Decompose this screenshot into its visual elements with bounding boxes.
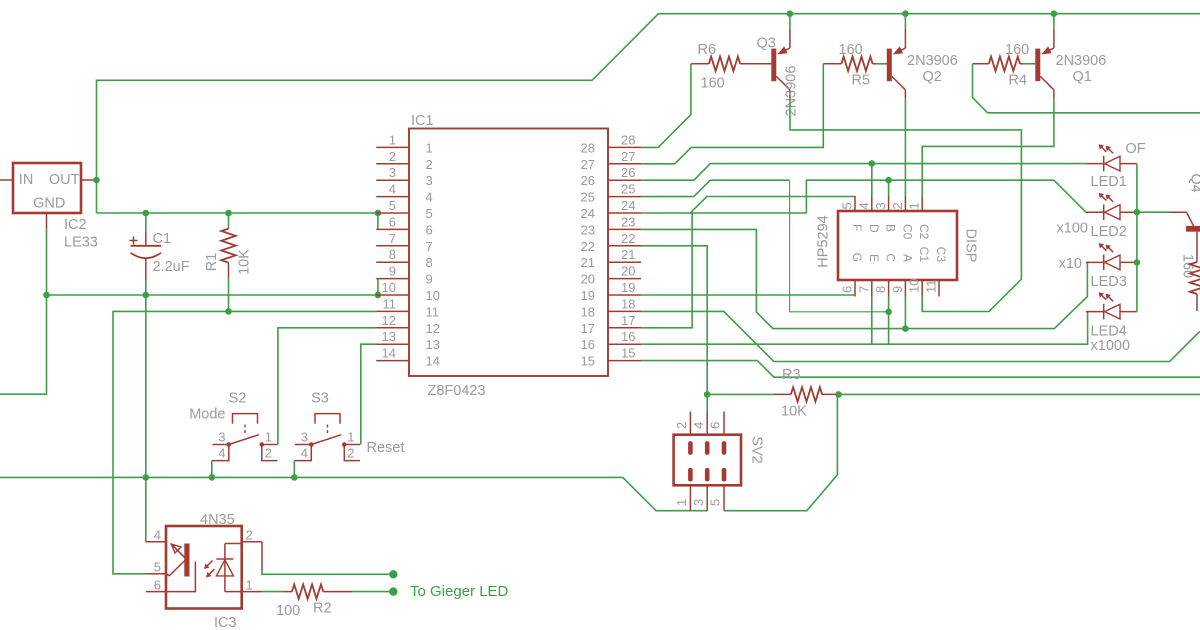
svg-text:22: 22 [581, 239, 595, 254]
HP5294 pin 4 stub [871, 197, 873, 212]
HP5294 pin 11 stub [938, 280, 940, 297]
svg-text:2.2uF: 2.2uF [153, 259, 190, 275]
svg-text:Z8F0423: Z8F0423 [428, 383, 486, 399]
svg-text:IN: IN [19, 172, 34, 188]
IC1 pin 27 [608, 163, 641, 165]
IC1 pin 2 [376, 163, 409, 165]
switch S2 lever [229, 435, 259, 445]
wire S2 pin1 to IC1 pin12 [278, 328, 376, 445]
svg-text:5: 5 [840, 202, 855, 209]
svg-text:10: 10 [382, 280, 396, 295]
SV2 pin 3 stub [706, 485, 708, 510]
svg-text:C1: C1 [917, 247, 931, 263]
svg-text:2: 2 [389, 149, 396, 164]
svg-text:4: 4 [154, 528, 161, 543]
HP5294 pin 5 stub [854, 197, 856, 212]
svg-text:27: 27 [621, 149, 635, 164]
svg-text:Mode: Mode [189, 407, 225, 423]
svg-text:C3: C3 [934, 247, 948, 263]
svg-text:6: 6 [840, 286, 855, 293]
wire diagonal into LED2 [1054, 180, 1086, 212]
IC3 LED vertical + plates [224, 544, 226, 592]
connector SV2 body [674, 435, 741, 486]
junction R1 top [225, 210, 232, 217]
IC1 pin 5 [376, 212, 409, 214]
transistor Q2 2N3906 base bar [887, 49, 892, 82]
svg-text:20: 20 [581, 272, 595, 287]
voltage regulator IC2 LE33 body [13, 163, 81, 213]
Q3 collector [776, 76, 790, 89]
wire S2 pin4 to GND rail [211, 461, 213, 478]
svg-text:5: 5 [389, 198, 396, 213]
svg-text:OF: OF [1126, 141, 1146, 157]
switch S2 bracket [233, 414, 258, 424]
svg-text:21: 21 [581, 255, 595, 270]
switch S3 pin 4 [294, 445, 311, 461]
svg-text:6: 6 [154, 578, 161, 593]
svg-text:3: 3 [218, 430, 225, 445]
junction Q3 emitter on rail [787, 10, 794, 17]
junction Q1 emitter on rail [1051, 10, 1058, 17]
svg-text:2N3906: 2N3906 [907, 53, 958, 69]
IC1 pin 7 [376, 245, 409, 247]
IC1 pin 26 [608, 179, 641, 181]
junction LED2 cathode [1134, 209, 1141, 216]
IC1 pin 16 [608, 343, 641, 345]
wire Q3 collector to HP10 [790, 98, 1021, 312]
junction output top [389, 570, 397, 578]
display DISP HP5294 body [838, 211, 957, 280]
switch S3 actuator dash [327, 425, 329, 435]
junction IC1 pin10 [375, 292, 382, 299]
svg-text:IC3: IC3 [214, 615, 237, 630]
IC3 pin 4 [146, 541, 166, 543]
svg-text:S3: S3 [311, 391, 329, 407]
wire GND from IC2 down and off left edge [0, 229, 47, 395]
svg-text:3: 3 [873, 202, 888, 209]
svg-text:F: F [850, 224, 864, 231]
svg-text:11: 11 [426, 304, 440, 319]
junction GND/C1 branch [143, 474, 150, 481]
svg-text:2N3906: 2N3906 [1056, 53, 1107, 69]
svg-text:A: A [900, 254, 914, 262]
junction OUT [93, 177, 100, 184]
junction Q2 emitter on rail [902, 10, 909, 17]
svg-text:24: 24 [621, 198, 635, 213]
wire pin28 to R6 [641, 64, 691, 148]
IC3 base L to pin6 [166, 562, 195, 592]
resistor R3 10K [707, 393, 774, 395]
svg-text:R2: R2 [313, 601, 332, 617]
HP5294 pin 7 stub [871, 280, 873, 297]
Q2 emitter wire to rail [904, 14, 906, 29]
SV2 pad top 1 [705, 441, 710, 454]
svg-text:8: 8 [426, 255, 433, 270]
HP5294 pin 1 stub [921, 197, 923, 212]
svg-text:8: 8 [389, 247, 396, 262]
svg-text:160: 160 [839, 42, 863, 58]
wire pin5-pin6 tie [377, 213, 379, 229]
SV2 pad top 0 [688, 441, 693, 454]
svg-text:1: 1 [246, 578, 253, 593]
svg-text:R4: R4 [1009, 73, 1028, 89]
switch S3 pin 2 [344, 445, 360, 461]
HP5294 pin 3 stub [888, 197, 890, 212]
IC1 pin 11 [376, 310, 409, 312]
svg-text:16: 16 [581, 337, 595, 352]
capacitor C1 2.2uF [145, 213, 147, 231]
svg-text:IC1: IC1 [411, 113, 434, 129]
svg-text:7: 7 [389, 231, 396, 246]
junction HP5294 pin4 tap [869, 160, 876, 167]
SV2 pin 4 stub [706, 411, 708, 435]
svg-text:x10: x10 [1059, 256, 1082, 272]
IC3 photon arrows [206, 561, 213, 568]
svg-text:25: 25 [621, 182, 635, 197]
SV2 pin 2 stub [689, 412, 691, 435]
svg-text:x100: x100 [1057, 221, 1088, 237]
IC1 pin 21 [608, 261, 641, 263]
wire IC3 pin2 to output dot [261, 542, 263, 571]
switch S2 pin 2 [262, 445, 278, 461]
svg-text:DISP: DISP [963, 229, 979, 263]
IC1 pin 17 [608, 327, 641, 329]
Q1 collector [1040, 76, 1054, 89]
transistor Q3 2N3906 base bar [771, 49, 776, 82]
svg-text:12: 12 [382, 313, 396, 328]
IC1 pin 9 [376, 278, 409, 280]
IC1 pin 10 [376, 294, 409, 296]
IC1 pin 12 [376, 327, 409, 329]
wire pin18 to right edge [641, 311, 1200, 361]
svg-text:G: G [850, 253, 864, 262]
IC1 pin 24 [608, 212, 641, 214]
svg-text:6: 6 [708, 422, 723, 429]
svg-text:12: 12 [426, 321, 440, 336]
SV2 pad bottom 2 [722, 468, 727, 481]
junction S2 pin4 [209, 474, 216, 481]
svg-text:20: 20 [621, 264, 635, 279]
svg-text:24: 24 [581, 206, 595, 221]
wire pin23 to HP9 and LED3 [641, 229, 1087, 328]
Q2 emitter [897, 48, 906, 52]
Q2 collector [892, 76, 906, 89]
wire GND horizontal to IC1 pin10 [47, 294, 378, 296]
wire pin27 to R5 [641, 64, 823, 164]
svg-text:13: 13 [426, 337, 440, 352]
wire GND drop to bottom rail and IC3 pin4 [145, 295, 147, 542]
wire S3 pin4 to GND rail [293, 461, 295, 478]
SV2 pin 6 stub [723, 412, 725, 435]
wire pin24 to HP5 [641, 197, 856, 214]
svg-text:Reset: Reset [367, 440, 405, 456]
wire pin11 net to IC3 pin5 [113, 311, 376, 573]
IC2 pin OUT [81, 179, 97, 181]
switch S3 pin 3 [295, 444, 311, 446]
wire pin9-pin10 tie [377, 279, 379, 295]
HP5294 pin 9 wire down [904, 297, 906, 329]
svg-text:100: 100 [276, 603, 300, 619]
svg-text:C0: C0 [900, 224, 914, 240]
svg-text:5: 5 [426, 206, 433, 221]
SV2 pin 1 stub [689, 485, 691, 510]
junction S3 pin4 [291, 474, 298, 481]
Q1 emitter wire to rail [1053, 14, 1055, 29]
IC3 pin 5 [146, 573, 166, 575]
svg-text:C1: C1 [153, 231, 172, 247]
HP5294 pin 2 stub [904, 197, 906, 212]
wire R4 corner to right edge [973, 64, 1200, 113]
svg-text:14: 14 [426, 354, 440, 369]
svg-text:1: 1 [389, 132, 396, 147]
LED4 emission arrows [1101, 295, 1106, 300]
svg-text:22: 22 [621, 231, 635, 246]
HP5294 pin 9 stub [904, 280, 906, 297]
resistor R2 100 [284, 591, 292, 593]
svg-text:1: 1 [265, 430, 272, 445]
svg-text:C2: C2 [917, 224, 931, 240]
svg-text:10K: 10K [781, 404, 807, 420]
wire 3.3V: OUT up, across top, to rail [97, 14, 1200, 213]
svg-text:R3: R3 [782, 367, 801, 383]
svg-text:2: 2 [426, 157, 433, 172]
IC3 pin 2 [242, 541, 262, 543]
svg-text:Q1: Q1 [1073, 69, 1092, 85]
svg-text:SV2: SV2 [749, 436, 765, 463]
IC1 pin 14 [376, 360, 409, 362]
resistor R5 160 [823, 63, 841, 65]
svg-text:1: 1 [347, 430, 354, 445]
IC2 pin GND [46, 213, 48, 229]
wire pin19 to HP6 [641, 294, 855, 296]
svg-text:LED1: LED1 [1091, 174, 1127, 190]
LED LED1 (pointing left) [1086, 163, 1104, 165]
junction HP5294 pin8 tap [885, 309, 892, 316]
Q3 emitter [781, 48, 790, 52]
wire IC3 pin1 to R2 [262, 591, 284, 593]
IC1 pin 1 [376, 146, 409, 148]
transistor Q4 2N3906 (rotated, clipped at edge) [1170, 211, 1187, 213]
switch S2 pin 1 [262, 444, 278, 446]
junction LED3 cathode [1134, 259, 1141, 266]
svg-text:1: 1 [426, 140, 433, 155]
wire LED2 junction to Q4 base [1137, 211, 1170, 213]
IC2 pin IN [0, 179, 13, 181]
switch S2 actuator dash [244, 425, 246, 435]
svg-text:3: 3 [301, 430, 308, 445]
IC1 pin 3 [376, 179, 409, 181]
svg-text:28: 28 [621, 132, 635, 147]
svg-text:15: 15 [621, 346, 635, 361]
svg-text:R1: R1 [204, 253, 220, 272]
svg-text:7: 7 [856, 286, 871, 293]
wire Q2 collector to HP2 [904, 98, 906, 197]
svg-text:21: 21 [621, 247, 635, 262]
LED LED3 (pointing left) [1086, 261, 1104, 263]
IC1 pin 18 [608, 310, 641, 312]
svg-text:17: 17 [621, 313, 635, 328]
svg-text:6: 6 [426, 222, 433, 237]
junction GND corner [43, 292, 50, 299]
HP5294 pin 8 wire down [888, 297, 890, 345]
Q1 emitter [1045, 48, 1054, 52]
svg-text:160: 160 [701, 76, 725, 92]
svg-text:S2: S2 [229, 391, 247, 407]
IC1 pin 22 [608, 245, 641, 247]
svg-text:9: 9 [890, 286, 905, 293]
svg-text:2: 2 [347, 446, 354, 461]
svg-text:4: 4 [856, 202, 871, 209]
IC1 pin 15 [608, 360, 641, 362]
svg-text:15: 15 [581, 354, 595, 369]
wire pin26 to HP4 and LED1 [641, 164, 1086, 181]
svg-text:25: 25 [581, 190, 595, 205]
IC1 Z8F0423 body [409, 129, 608, 377]
LED3 emission arrows [1101, 245, 1106, 250]
svg-text:14: 14 [382, 346, 396, 361]
junction R3 left [704, 391, 711, 398]
svg-text:4: 4 [301, 446, 308, 461]
svg-text:16: 16 [621, 329, 635, 344]
svg-text:HP5294: HP5294 [816, 215, 832, 267]
wire Q1 collector to HP1 [922, 98, 1054, 197]
LED LED4 (pointing left) [1086, 311, 1104, 313]
svg-text:LED2: LED2 [1091, 224, 1127, 240]
wire 3.3V horizontal to IC1 pins 5/6 [97, 212, 378, 214]
svg-text:5: 5 [708, 499, 723, 506]
junction R3 right [835, 391, 842, 398]
IC1 pin 4 [376, 196, 409, 198]
wire S3 pin1 to IC1 pin13 [361, 344, 376, 444]
svg-text:IC2: IC2 [64, 217, 87, 233]
svg-text:23: 23 [581, 222, 595, 237]
junction C1 top [143, 210, 150, 217]
svg-text:x1000: x1000 [1091, 338, 1131, 354]
svg-text:10K: 10K [237, 249, 253, 275]
svg-text:E: E [867, 254, 881, 262]
svg-text:10: 10 [426, 288, 440, 303]
transistor Q1 2N3906 base bar [1035, 49, 1040, 82]
svg-text:11: 11 [383, 296, 397, 311]
switch S3 lever [311, 435, 341, 445]
svg-text:2: 2 [890, 202, 905, 209]
svg-text:Q3: Q3 [757, 36, 776, 52]
LED LED2 (pointing left) [1086, 211, 1104, 213]
IC1 pin 19 [608, 294, 641, 296]
switch S3 contacts [309, 442, 314, 447]
LED1 emission arrows [1101, 147, 1106, 152]
svg-text:9: 9 [426, 272, 433, 287]
svg-text:1: 1 [907, 202, 922, 209]
IC3 pin 1 [242, 591, 262, 593]
SV2 pad top 2 [722, 441, 727, 454]
resistor R4 160 [973, 63, 989, 65]
svg-text:13: 13 [382, 329, 396, 344]
svg-text:19: 19 [621, 280, 635, 295]
switch S3 bracket [315, 414, 340, 424]
HP5294 pin 8 stub [888, 280, 890, 297]
junction C1 bottom [143, 292, 150, 299]
wire pin15 to right edge [641, 361, 1200, 378]
svg-text:R6: R6 [698, 42, 717, 58]
svg-text:19: 19 [581, 288, 595, 303]
svg-text:4: 4 [691, 422, 706, 429]
IC3 transistor base plate [184, 544, 189, 577]
svg-text:18: 18 [621, 296, 635, 311]
junction R1 bottom [225, 308, 232, 315]
junction HP5294 pin9 tap [902, 325, 909, 332]
switch S2 pin 3 [213, 444, 229, 446]
svg-text:28: 28 [581, 140, 595, 155]
HP5294 pin 7 wire down [871, 297, 873, 345]
wire R3 to right edge [839, 393, 1200, 395]
wire GND bottom rail [0, 477, 707, 510]
HP5294 pin 10 stub [921, 280, 923, 297]
svg-text:R5: R5 [852, 73, 871, 89]
wire LED cathode chain [1136, 164, 1138, 312]
svg-text:11: 11 [924, 280, 939, 294]
IC3 emitter diagonal with open arrow [171, 544, 186, 559]
svg-text:6: 6 [389, 214, 396, 229]
wire pin22 to R3 junction [641, 246, 707, 395]
svg-text:LED3: LED3 [1091, 274, 1127, 290]
svg-text:26: 26 [621, 165, 635, 180]
svg-text:2N3906: 2N3906 [784, 66, 800, 117]
svg-text:4N35: 4N35 [200, 512, 235, 528]
svg-text:4: 4 [218, 446, 225, 461]
svg-text:3: 3 [389, 165, 396, 180]
IC1 pin 13 [376, 343, 409, 345]
wire pin17 riser [641, 180, 1054, 328]
Q3 emitter wire to rail [789, 14, 791, 29]
svg-text:5: 5 [154, 560, 161, 575]
IC1 pin 8 [376, 261, 409, 263]
svg-text:2: 2 [265, 446, 272, 461]
IC1 pin 6 [376, 228, 409, 230]
svg-text:9: 9 [389, 264, 396, 279]
svg-text:3: 3 [691, 499, 706, 506]
svg-text:160: 160 [1005, 42, 1029, 58]
optocoupler IC3 4N35 body [166, 526, 242, 609]
svg-text:GND: GND [33, 196, 65, 212]
IC1 pin 20 [608, 278, 641, 280]
svg-text:18: 18 [581, 304, 595, 319]
svg-text:C: C [884, 253, 898, 262]
HP5294 pin 6 stub [854, 280, 856, 297]
IC1 pin 28 [608, 146, 641, 148]
SV2 pad bottom 1 [705, 468, 710, 481]
IC1 pin 23 [608, 228, 641, 230]
junction IC1 pin5 [375, 210, 382, 217]
svg-text:B: B [884, 224, 898, 232]
IC3 pin 6 [146, 591, 166, 593]
svg-text:LE33: LE33 [64, 235, 98, 251]
switch S3 pin 1 [344, 444, 360, 446]
resistor R6 160 [691, 63, 709, 65]
svg-text:Q4: Q4 [1188, 173, 1200, 192]
SV2 pin 5 stub [723, 485, 725, 510]
svg-text:23: 23 [621, 214, 635, 229]
svg-text:3: 3 [426, 173, 433, 188]
C1 plus sign [130, 237, 138, 245]
IC3 collector diagonal [166, 560, 185, 575]
svg-text:OUT: OUT [49, 172, 80, 188]
SV2 pad bottom 0 [688, 468, 693, 481]
wire pin16 to LED4 [641, 312, 1088, 345]
svg-text:4: 4 [426, 190, 433, 205]
svg-text:26: 26 [581, 173, 595, 188]
svg-text:4: 4 [389, 182, 396, 197]
